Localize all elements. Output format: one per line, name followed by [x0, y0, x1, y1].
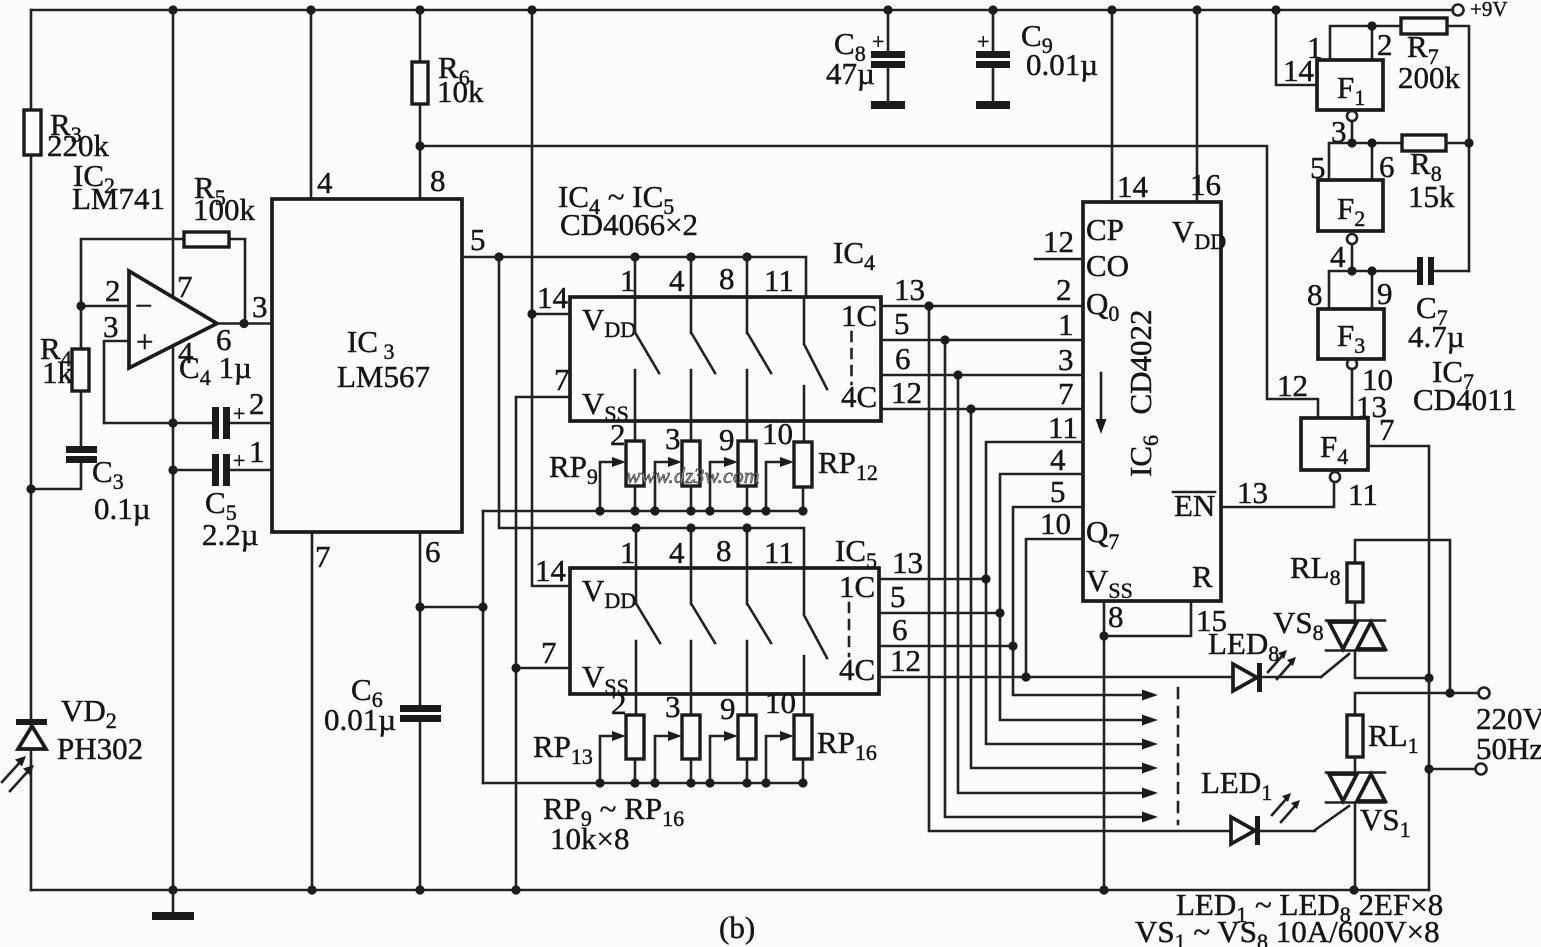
potentiometer RP15 [738, 715, 756, 759]
svg-text:5: 5 [470, 222, 486, 257]
wire RL8 top feed from mains terminal line [1355, 540, 1450, 693]
svg-text:6: 6 [892, 612, 908, 647]
svg-text:+: + [136, 324, 153, 359]
svg-text:7: 7 [541, 635, 557, 670]
svg-text:1C: 1C [841, 298, 877, 333]
svg-text:10k: 10k [437, 74, 484, 109]
IC3 LM567 box [272, 199, 462, 532]
svg-text:LM741: LM741 [72, 181, 165, 216]
svg-text:VS8: VS8 [1273, 605, 1324, 645]
svg-text:1: 1 [249, 434, 265, 469]
svg-text:4C: 4C [839, 652, 875, 687]
svg-text:2: 2 [1056, 272, 1072, 307]
triac VS8 [1273, 605, 1385, 651]
svg-text:+: + [233, 401, 245, 426]
junction dots IC4 switch-top wire [630, 252, 751, 261]
svg-text:4C: 4C [841, 379, 877, 414]
svg-text:5: 5 [894, 306, 910, 341]
potentiometer RP12 [794, 442, 812, 487]
svg-text:4.7µ: 4.7µ [1408, 319, 1465, 354]
svg-text:IC5: IC5 [835, 533, 877, 573]
analog switches inside IC5 [636, 568, 660, 715]
svg-text:RL8: RL8 [1290, 550, 1341, 590]
triac VS1 [1326, 773, 1411, 843]
wire op-amp V- pin4 down to ground rail [172, 345, 175, 890]
svg-text:CD4022: CD4022 [1123, 309, 1158, 414]
svg-text:VS1: VS1 [1360, 802, 1411, 842]
svg-text:VD2: VD2 [61, 693, 117, 733]
terminal 220V line2 [1429, 768, 1475, 771]
capacitor C8 [887, 10, 890, 101]
NAND gate F4 [1301, 418, 1368, 470]
wire IC4 switch input stubs [635, 257, 747, 297]
svg-text:+: + [872, 29, 884, 54]
NAND gate F3 [1318, 309, 1384, 359]
wire IC3 pin6 down through C6 to ground [419, 532, 422, 890]
wire IC6 pin16 from rail [1196, 10, 1199, 202]
svg-text:14: 14 [535, 553, 567, 588]
svg-text:LED8: LED8 [1208, 626, 1279, 666]
svg-text:7: 7 [554, 362, 570, 397]
wire F1 VDD pin14 feed [1276, 10, 1317, 85]
svg-text:LED1: LED1 [1201, 765, 1272, 805]
svg-text:2.2µ: 2.2µ [202, 517, 259, 552]
wire op-amp inverting input pin2 [81, 305, 129, 308]
inverter bubble F2 output pin4 [1347, 234, 1357, 244]
wire F1 out / F2 inputs / R8 row [1329, 143, 1402, 180]
svg-text:C3: C3 [92, 454, 124, 494]
svg-text:4: 4 [669, 263, 685, 298]
analog switches inside IC4 [635, 297, 659, 441]
wire R4 branch [80, 306, 83, 446]
wire pin6 node to RP buses vertical [420, 511, 483, 783]
wire 220V terminal1 row [1355, 693, 1478, 715]
wire common line to terminal2 and ground rail [1428, 678, 1431, 890]
svg-text:+: + [233, 448, 245, 473]
svg-text:10: 10 [762, 416, 793, 451]
svg-text:7: 7 [177, 269, 193, 304]
wire op-amp non-inverting input pin3 jog [104, 341, 129, 423]
LED LED8 [1208, 626, 1321, 692]
svg-text:8: 8 [1108, 599, 1124, 634]
svg-text:10k×8: 10k×8 [550, 821, 629, 856]
wire IC4 1C to IC6 Q0 pin2 [881, 305, 1083, 308]
wire +9V top rail [31, 9, 1453, 12]
resistor R8 [1402, 135, 1446, 151]
svg-text:R: R [1192, 559, 1213, 594]
svg-text:C4 1µ: C4 1µ [179, 350, 252, 390]
svg-text:9: 9 [720, 691, 736, 726]
dashed line between 1C and 4C (IC4) [850, 332, 853, 384]
svg-text:50Hz: 50Hz [1476, 731, 1541, 766]
svg-text:16: 16 [1190, 167, 1221, 202]
svg-text:1: 1 [620, 263, 636, 298]
svg-text:−: − [135, 288, 152, 323]
NAND gate F2 [1318, 180, 1383, 231]
wire R5 feedback top [81, 239, 245, 323]
wire IC6 VSS pin8 to ground rail [1103, 601, 1106, 890]
svg-text:3: 3 [252, 289, 268, 324]
wire LM567 out to F4 input 12 (long run) [420, 146, 1318, 418]
svg-text:8: 8 [430, 163, 446, 198]
svg-text:3: 3 [665, 421, 681, 456]
wire IC5 4C line (LED8 row) to IC6 pin10 [879, 539, 1233, 677]
wire RL1 to VS1 [1354, 757, 1357, 771]
resistor R5 [184, 232, 229, 247]
wiper arrows RP13-RP16 [600, 736, 782, 783]
junction dots IC5 switch-top wire [631, 523, 751, 532]
svg-text:www.dz3w.com: www.dz3w.com [626, 463, 760, 488]
wire F2 out / F3 inputs / C7 row [1329, 271, 1469, 309]
svg-text:CO: CO [1086, 248, 1129, 283]
svg-text:2: 2 [249, 386, 265, 421]
svg-text:+: + [977, 29, 989, 54]
NAND gate F1 [1317, 60, 1383, 110]
svg-text:RL1: RL1 [1368, 718, 1419, 758]
svg-text:CD4011: CD4011 [1413, 382, 1517, 417]
svg-text:4: 4 [669, 535, 685, 570]
svg-text:11: 11 [764, 535, 794, 570]
svg-text:11: 11 [764, 263, 794, 298]
svg-text:IC4: IC4 [833, 235, 875, 275]
junction dots on +9V rail [168, 5, 1280, 14]
potentiometer RP13 [626, 715, 644, 759]
terminal 220V line1 [1479, 688, 1490, 699]
svg-text:4: 4 [317, 165, 333, 200]
wire left border (R3 / VD2 branch) [30, 10, 33, 890]
wire IC6 pin14 from rail [1111, 10, 1114, 202]
wire IC3 pin4 from +9V rail [310, 10, 313, 199]
wire IC6 EN pin13 to F4 output [1221, 482, 1334, 507]
svg-text:0.1µ: 0.1µ [94, 491, 151, 526]
svg-text:11: 11 [1348, 477, 1378, 512]
capacitor C4 [212, 407, 219, 439]
svg-text:CD4066×2: CD4066×2 [560, 207, 698, 242]
svg-text:1C: 1C [839, 569, 875, 604]
svg-text:13: 13 [894, 272, 925, 307]
wire F4 pin7 to common line [1368, 446, 1429, 678]
svg-text:RP13: RP13 [533, 729, 593, 769]
wire VS8 MT2 to common line [1355, 652, 1429, 678]
wire R7 right to C7 rail [1447, 26, 1469, 271]
svg-text:100k: 100k [193, 192, 256, 227]
junction dots on pin4 line [168, 418, 177, 894]
svg-text:RP12: RP12 [818, 445, 878, 485]
svg-text:2: 2 [105, 273, 121, 308]
LED LED1 [1201, 765, 1315, 845]
svg-text:7: 7 [315, 539, 331, 574]
wire IC5 3C line to IC6 pin5 [879, 507, 1145, 695]
wire C4 row (op-amp pin3 / pin4 to IC3 pin2) [104, 422, 272, 425]
svg-text:5: 5 [890, 579, 906, 614]
svg-text:6: 6 [895, 341, 911, 376]
svg-text:12: 12 [890, 643, 921, 678]
svg-text:12: 12 [1043, 224, 1074, 259]
resistor R4 [72, 349, 89, 391]
wire IC4 3C to IC6 pin3 [881, 374, 1083, 377]
svg-text:9: 9 [719, 422, 735, 457]
svg-text:200k: 200k [1398, 60, 1461, 95]
wire channel3 branch to arrow row [958, 375, 1145, 793]
wire R6 branch from rail to IC3 pin8 [419, 10, 422, 199]
wire IC6 R pin15 stub to pin8 line [1104, 601, 1191, 636]
wire RL8 to VS8 [1354, 602, 1357, 619]
svg-text:8: 8 [1307, 277, 1323, 312]
svg-text:0.01µ: 0.01µ [1026, 47, 1098, 82]
dashed ellipsis line for omitted channels [1177, 688, 1180, 824]
wire VS8 gate diagonal [1321, 654, 1349, 677]
wire Q0 branch down to LED1 row [929, 306, 1231, 831]
potentiometer RP9 [626, 441, 644, 486]
wire channel2 branch to arrow row [945, 340, 1145, 817]
pin stub CO 12 [1035, 258, 1083, 261]
svg-text:3: 3 [1058, 342, 1074, 377]
svg-text:7: 7 [1379, 412, 1395, 447]
svg-text:3: 3 [665, 689, 681, 724]
wire IC5 VSS pin7 to ground line [516, 667, 570, 670]
wire IC3 pin7 to ground rail [311, 532, 314, 890]
wire channel4 branch to arrow row [971, 409, 1145, 768]
svg-text:1k: 1k [42, 355, 74, 390]
arrow inside IC6 [1100, 373, 1103, 422]
arrowheads of abbreviated channel rows [1142, 690, 1158, 823]
wire pot bottoms to RP13-16 bus [635, 759, 803, 783]
capacitor C7 [1417, 257, 1423, 285]
wire pin5 branch down to IC5 switch tops [499, 257, 804, 568]
wire RP9-12 common bus [483, 510, 803, 513]
svg-text:RP9: RP9 [549, 449, 598, 489]
wire pot bottoms to RP9-12 bus [635, 486, 803, 511]
wire IC4 2C to IC6 pin1 [881, 339, 1083, 342]
dashed line between 1C and 4C (IC5) [848, 603, 851, 656]
wire VS1 gate diagonal [1315, 806, 1349, 830]
wire RP13-16 common bus [483, 782, 803, 785]
svg-text:5: 5 [1050, 474, 1066, 509]
wire IC5 2C line to IC6 pin4 [879, 474, 1145, 720]
wire bottom ground rail [31, 889, 1429, 892]
resistor RL8 [1347, 563, 1363, 602]
resistor R3 [24, 110, 41, 155]
svg-text:9: 9 [1377, 276, 1393, 311]
svg-text:11: 11 [1048, 410, 1078, 445]
switch block IC5 (CD4066) [570, 568, 879, 694]
svg-text:10: 10 [765, 685, 796, 720]
resistor R6 [412, 62, 428, 104]
wire IC4 4C to IC6 pin7 [881, 408, 1083, 411]
svg-text:12: 12 [1277, 368, 1308, 403]
terminal +9V [1453, 5, 1464, 16]
potentiometer RP11 [738, 441, 756, 486]
op-amp IC2 triangle [129, 271, 217, 368]
resistor RL1 [1347, 715, 1363, 757]
svg-text:RP16: RP16 [817, 725, 877, 765]
svg-text:2: 2 [1377, 27, 1393, 62]
wire IC5 1C line to IC6 pin11 [879, 442, 1145, 744]
svg-text:47µ: 47µ [826, 56, 875, 91]
svg-text:1: 1 [1058, 307, 1074, 342]
svg-text:3: 3 [103, 309, 119, 344]
svg-text:6: 6 [425, 534, 441, 569]
wire C5 row (to IC3 pin1) [173, 469, 272, 472]
wire IC4 VSS pin7 to ground [516, 397, 570, 890]
inverter bubble F4 output pin11 [1330, 472, 1340, 482]
wiper arrows RP9-RP12 [600, 462, 782, 511]
svg-text:2: 2 [610, 417, 626, 452]
wire VS1 MT2 to ground rail [1354, 804, 1357, 890]
svg-text:LM567: LM567 [337, 359, 430, 394]
inverter bubble F3 output pin10 [1347, 359, 1357, 369]
svg-text:0.01µ: 0.01µ [324, 702, 396, 737]
svg-text:10: 10 [1040, 506, 1071, 541]
svg-text:8: 8 [719, 261, 735, 296]
capacitor C9 [992, 10, 995, 101]
counter IC6 CD4022 box [1083, 202, 1221, 601]
svg-text:14: 14 [1117, 169, 1149, 204]
svg-text:7: 7 [1058, 376, 1074, 411]
potentiometer RP10 [682, 441, 700, 486]
wire op-amp output to IC3 pin3 [217, 322, 272, 325]
svg-text:13: 13 [1237, 475, 1268, 510]
photodiode VD2 [2, 693, 143, 791]
svg-text:4: 4 [1050, 442, 1066, 477]
svg-text:PH302: PH302 [57, 731, 143, 766]
potentiometer RP14 [682, 715, 700, 759]
svg-text:14: 14 [537, 280, 569, 315]
wire F1 inputs 1,2 tied to R7 [1330, 26, 1401, 60]
capacitor C6 [400, 705, 441, 712]
inverter bubble F1 output pin3 [1347, 111, 1357, 121]
junction dots on bottom rail [307, 885, 1358, 894]
wire IC3 pin5 to switch tops of IC4 [462, 257, 806, 297]
svg-text:15k: 15k [1408, 179, 1455, 214]
svg-text:4: 4 [1330, 239, 1346, 274]
resistor R7 [1401, 18, 1447, 34]
wire VDD rail branch to IC4/IC5 pin14 [532, 10, 570, 586]
svg-text:1: 1 [620, 535, 636, 570]
switch block IC4 (CD4066) [570, 297, 881, 421]
svg-text:8: 8 [716, 533, 732, 568]
wire op-amp V+ pin7 stub from rail [172, 10, 175, 299]
ground [172, 890, 175, 913]
capacitor C5 [212, 454, 219, 486]
svg-text:13: 13 [892, 545, 923, 580]
svg-text:+9V: +9V [1470, 0, 1508, 21]
wire IC5 switch input stubs [636, 528, 747, 568]
svg-text:2: 2 [611, 686, 627, 721]
capacitor C3 [31, 462, 81, 489]
svg-text:(b): (b) [719, 910, 755, 945]
svg-text:CP: CP [1086, 212, 1124, 247]
svg-text:12: 12 [891, 375, 922, 410]
potentiometer RP16 [794, 715, 812, 759]
